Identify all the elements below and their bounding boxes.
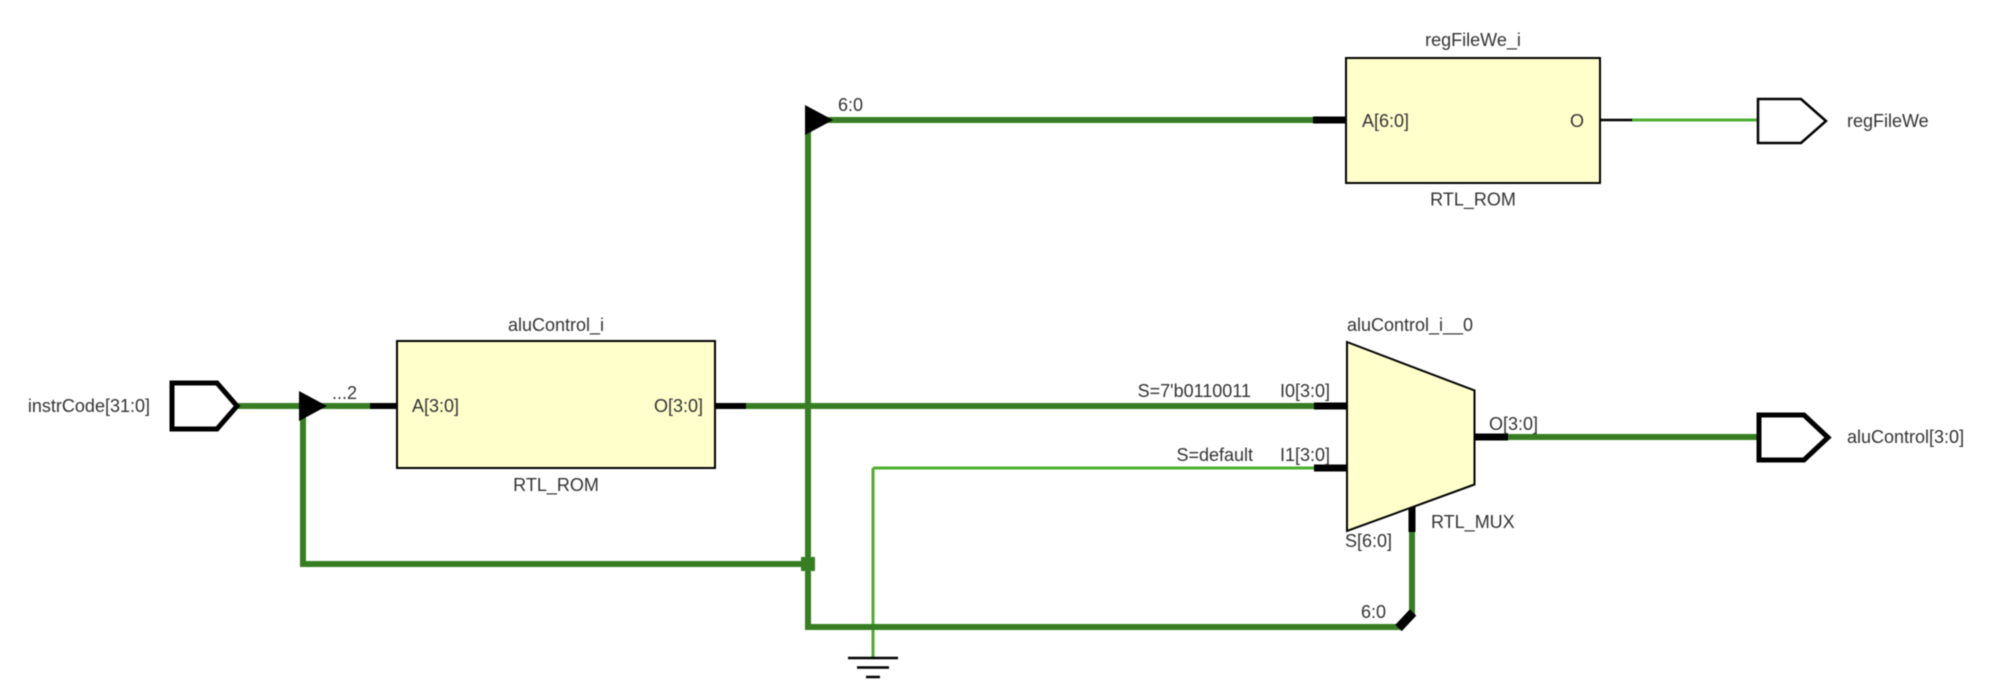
svg-text:regFileWe_i: regFileWe_i	[1425, 30, 1521, 51]
bus slice tick (black) on diagonal	[1399, 613, 1414, 629]
svg-text:A[6:0]: A[6:0]	[1362, 111, 1409, 131]
svg-text:...2: ...2	[332, 383, 357, 403]
svg-text:regFileWe: regFileWe	[1847, 111, 1929, 131]
wire top horizontal to regFileWe_i A[6:0]	[808, 117, 1316, 123]
wire thin: ground net vertical x=873	[872, 468, 875, 658]
wire main vertical x=808	[805, 114, 811, 630]
pin stub mux O (black)	[1474, 434, 1508, 441]
pin stub mux S (black vertical)	[1409, 507, 1416, 532]
wire bottom horizontal y=627	[808, 624, 1401, 630]
bus tap arrow at (832,120)	[805, 105, 833, 135]
wire thin: ground net horizontal to mux I1	[873, 467, 1316, 470]
svg-text:aluControl[3:0]: aluControl[3:0]	[1847, 427, 1964, 447]
svg-text:instrCode[31:0]: instrCode[31:0]	[28, 396, 150, 416]
svg-text:I1[3:0]: I1[3:0]	[1280, 445, 1330, 465]
svg-text:aluControl_i__0: aluControl_i__0	[1347, 315, 1473, 336]
svg-text:O[3:0]: O[3:0]	[654, 396, 703, 416]
svg-text:O: O	[1570, 111, 1584, 131]
svg-text:RTL_ROM: RTL_ROM	[513, 475, 599, 496]
pin stub mux I0 (black)	[1314, 403, 1348, 410]
pin stub regFileWe_i A (black)	[1313, 117, 1347, 124]
ground symbol	[848, 657, 898, 660]
pin stub regFileWe_i O (black thin)	[1599, 119, 1632, 122]
pin stub aluControl_i O (black)	[714, 403, 746, 409]
pin stub mux I1 (black)	[1314, 465, 1348, 472]
svg-text:RTL_MUX: RTL_MUX	[1431, 512, 1515, 533]
svg-text:I0[3:0]: I0[3:0]	[1280, 381, 1330, 401]
wire diagonal corner to S	[1398, 614, 1412, 628]
svg-text:6:0: 6:0	[838, 95, 863, 115]
pin stub aluControl_i A (black)	[370, 403, 398, 409]
ROM block regFileWe_i	[1346, 58, 1600, 183]
svg-text:S=7'b0110011: S=7'b0110011	[1138, 381, 1251, 401]
svg-text:6:0: 6:0	[1361, 602, 1386, 622]
svg-text:O[3:0]: O[3:0]	[1489, 414, 1538, 434]
wire thin: regFileWe O to output port	[1631, 119, 1758, 122]
svg-text:aluControl_i: aluControl_i	[508, 315, 604, 336]
ROM block aluControl_i	[397, 341, 715, 468]
input port instrCode	[172, 383, 237, 429]
wire aluControl_i O[3:0] to mux I0	[745, 403, 1316, 409]
wire feedback horizontal y=564	[300, 561, 811, 567]
bus tap arrow at (327,406)	[299, 391, 327, 421]
wire instrCode bus: input port to aluControl_i A pin	[238, 403, 372, 409]
svg-text:RTL_ROM: RTL_ROM	[1430, 190, 1516, 211]
wire vertical x=1412 to mux S pin	[1409, 530, 1415, 617]
output port aluControl[3:0]	[1759, 415, 1828, 460]
svg-text:A[3:0]: A[3:0]	[412, 396, 459, 416]
node junction dot at (808,564)	[801, 557, 815, 571]
svg-text:S=default: S=default	[1176, 445, 1253, 465]
wire mux O[3:0] to aluControl port	[1507, 434, 1761, 440]
output port regFileWe	[1758, 99, 1826, 143]
wire instrCode vertical drop at x=303	[300, 406, 306, 564]
svg-text:S[6:0]: S[6:0]	[1345, 531, 1392, 551]
MUX block aluControl_i__0 (trapezoid)	[1347, 342, 1475, 531]
